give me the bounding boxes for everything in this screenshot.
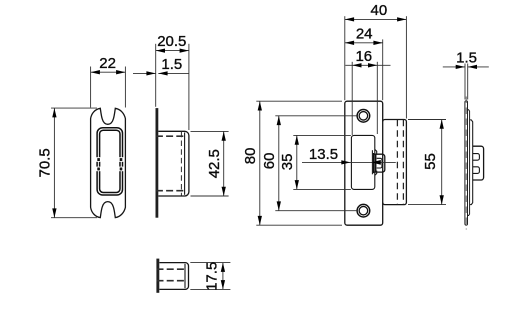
lock flange plate outline bbox=[345, 101, 383, 225]
side view case tangent edge bbox=[184, 133, 186, 195]
dim 55 bottom arrow bbox=[440, 195, 444, 204]
svg-text:40: 40 bbox=[371, 2, 388, 19]
dim 24 left arrow bbox=[345, 41, 354, 45]
top view hidden line lower bbox=[157, 280, 185, 282]
dim 80 top arrow bbox=[258, 101, 262, 110]
dim 16 left arrow (inside pointing out) bbox=[352, 63, 361, 67]
dim 1.5 right leader bbox=[158, 72, 189, 74]
side view case outline bbox=[158, 131, 189, 196]
dim 1.5 v4 right arrow (outside) bbox=[468, 65, 477, 69]
top view case outline bbox=[159, 263, 188, 290]
dim 60 line bbox=[278, 116, 280, 211]
svg-text:1.5: 1.5 bbox=[456, 49, 477, 66]
dim 80 line bbox=[259, 101, 261, 225]
dim 20.5 left arrow bbox=[156, 48, 165, 52]
dim 42.5 line bbox=[223, 131, 225, 196]
case hidden line 1 bbox=[396, 120, 398, 205]
dim 17.5 bottom extension line bbox=[190, 288, 230, 290]
dim 35 bottom extension line bbox=[293, 188, 351, 190]
svg-text:35: 35 bbox=[279, 154, 296, 171]
dim 24 line bbox=[345, 42, 383, 44]
dim 1.5 left leader bbox=[133, 72, 156, 74]
dim 35 top arrow bbox=[295, 135, 299, 144]
dim 20.5 right extension line bbox=[188, 44, 190, 130]
dim 1.5 v4 left extension line bbox=[464, 64, 466, 100]
svg-text:1.5: 1.5 bbox=[161, 56, 182, 73]
svg-text:20.5: 20.5 bbox=[157, 33, 186, 50]
dim 55 bottom extension line bbox=[408, 204, 446, 206]
dim 60 top extension line (to screw center) bbox=[275, 115, 357, 117]
dim 70.5 bottom extension line bbox=[51, 217, 97, 219]
dim 22 left arrow bbox=[91, 70, 100, 74]
side view hidden line vertical bbox=[180, 132, 182, 196]
dim 16 left extension line bbox=[351, 62, 353, 135]
screw hole bottom inner bbox=[359, 206, 368, 215]
dim 22 right arrow bbox=[116, 70, 125, 74]
top view hidden line upper bbox=[157, 268, 185, 270]
dim 40 right arrow bbox=[397, 17, 406, 21]
dim 17.5 top extension line bbox=[190, 262, 230, 264]
top view faceplate bar bbox=[156, 259, 159, 293]
side case strip bbox=[470, 120, 473, 205]
dim 40 right extension line bbox=[405, 16, 407, 118]
screw hole top outer bbox=[357, 110, 370, 123]
svg-text:16: 16 bbox=[355, 48, 372, 65]
dim 80 bottom arrow bbox=[258, 216, 262, 225]
dim 1.5 v4 left leader bbox=[443, 66, 465, 68]
dim 42.5 top arrow bbox=[222, 131, 226, 140]
dim 17.5 bottom arrow bbox=[221, 280, 225, 289]
side plate outline bbox=[465, 101, 468, 225]
svg-text:13.5: 13.5 bbox=[309, 146, 338, 163]
dim 40 line bbox=[345, 18, 407, 20]
dim 24 right extension line bbox=[382, 39, 384, 100]
svg-text:55: 55 bbox=[422, 153, 439, 170]
dim 13.5 line / centerline bbox=[302, 161, 396, 163]
faceplate slot outer bbox=[97, 128, 122, 195]
latch bolt bevel line 2 bbox=[373, 153, 375, 173]
dim 55 top extension line bbox=[408, 119, 446, 121]
dim 16 line bbox=[345, 64, 390, 66]
svg-text:60: 60 bbox=[261, 153, 278, 170]
dim 20.5 right arrow bbox=[180, 48, 189, 52]
side view hidden line bottom bbox=[156, 190, 185, 192]
dim 20.5 line bbox=[156, 50, 189, 52]
dim 1.5 v4 right leader bbox=[468, 66, 489, 68]
dim 17.5 line bbox=[222, 263, 224, 290]
latch bolt step bottom bbox=[375, 171, 377, 176]
dim 42.5 bottom extension line bbox=[191, 195, 229, 197]
dim 24 right arrow bbox=[373, 41, 382, 45]
svg-text:17.5: 17.5 bbox=[204, 262, 221, 291]
dim 42.5 top extension line bbox=[191, 130, 229, 132]
dim 70.5 top arrow bbox=[52, 108, 56, 117]
screw hole bottom outer bbox=[357, 204, 370, 217]
dim 70.5 bottom arrow bbox=[52, 208, 56, 217]
dim 1.5 v4 right extension line bbox=[467, 64, 469, 100]
side catch bracket bbox=[473, 146, 484, 180]
faceplate slot inner bbox=[100, 130, 120, 192]
svg-text:24: 24 bbox=[356, 25, 373, 42]
dim 80 bottom extension line bbox=[256, 224, 342, 226]
dim 35 top extension line bbox=[293, 134, 351, 136]
dim 55 line bbox=[441, 120, 443, 205]
faceplate front view outline bbox=[91, 108, 126, 217]
dim 60 bottom arrow bbox=[277, 201, 281, 210]
case hidden line 2 bbox=[402, 120, 404, 205]
dim 16 right arrow (inside pointing out) bbox=[368, 63, 377, 67]
side view faceplate edge (double line bar) bbox=[156, 108, 159, 218]
dim 40 left arrow bbox=[345, 17, 354, 21]
dim 70.5 top extension line bbox=[51, 107, 97, 109]
dim 55 top arrow bbox=[440, 120, 444, 129]
dim 13.5 right-pointing arrow bbox=[341, 160, 350, 164]
dim 13.5 left-pointing arrow at bolt tip bbox=[371, 160, 381, 165]
side view hidden line top bbox=[156, 135, 185, 137]
dim 35 line bbox=[296, 135, 298, 189]
latch bolt small tab bbox=[377, 158, 382, 168]
latch bolt head bracket bbox=[373, 154, 385, 172]
svg-text:22: 22 bbox=[99, 55, 116, 72]
dim 22 right extension line bbox=[124, 67, 126, 108]
dim 60 top arrow bbox=[277, 116, 281, 125]
dim 22 left extension line bbox=[90, 67, 92, 108]
latch bolt inner line bbox=[375, 154, 377, 172]
side bracket tab upper bbox=[473, 154, 480, 161]
dim 1.5 v4 left arrow (outside) bbox=[456, 65, 465, 69]
latch window bbox=[351, 135, 374, 189]
svg-text:70.5: 70.5 bbox=[37, 148, 54, 177]
side mid strip bbox=[468, 110, 470, 216]
side bracket tab lower bbox=[473, 167, 480, 174]
dim 35 bottom arrow bbox=[295, 180, 299, 189]
top view case tangent edge bbox=[184, 264, 186, 288]
screw hole top inner bbox=[359, 112, 368, 121]
dim 1.5 left arrow (outside) bbox=[146, 71, 155, 75]
latch bolt step top bbox=[375, 149, 377, 154]
side plate center dashed line bbox=[465, 97, 467, 230]
dim 17.5 top arrow bbox=[221, 263, 225, 272]
dim 80 top extension line bbox=[256, 100, 342, 102]
svg-text:42.5: 42.5 bbox=[206, 149, 223, 178]
dim 16 right extension line bbox=[376, 62, 378, 134]
case behind flange: top edge bbox=[383, 119, 407, 204]
dim 60 bottom extension line (to screw center) bbox=[275, 210, 357, 212]
dim 20.5 left extension line bbox=[155, 44, 157, 107]
dim 1.5 right arrow (outside) bbox=[158, 71, 167, 75]
dim 40-24 shared left extension line bbox=[344, 16, 346, 100]
latch bolt bevel edge bbox=[371, 150, 373, 174]
svg-text:80: 80 bbox=[242, 148, 259, 165]
dim 70.5 line bbox=[53, 108, 55, 218]
dim 22 line bbox=[91, 71, 126, 73]
dim 42.5 bottom arrow bbox=[222, 187, 226, 196]
slot side notch marks bbox=[96, 157, 101, 162]
